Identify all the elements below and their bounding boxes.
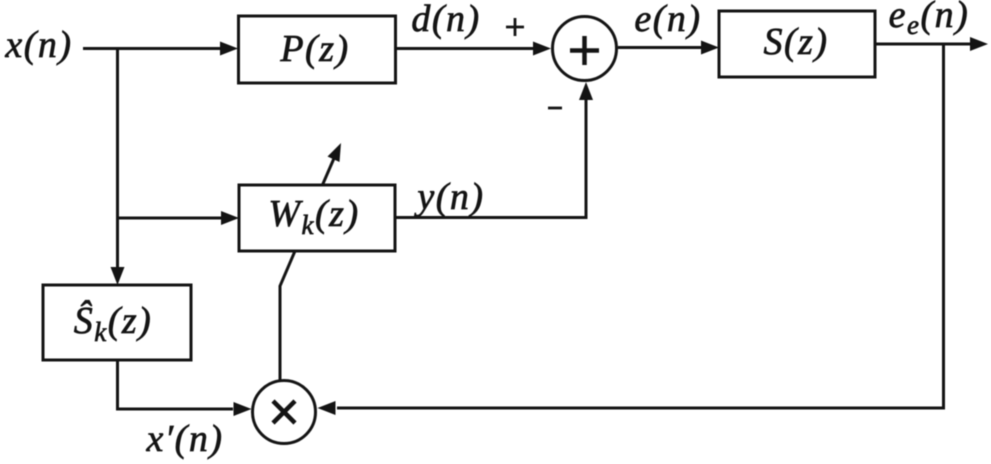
svg-text:S(z): S(z) [763,21,828,63]
svg-text:e(n): e(n) [634,0,701,40]
svg-text:Ŝk(z): Ŝk(z) [74,300,153,347]
svg-text:d(n): d(n) [411,0,480,40]
svg-text:y(n): y(n) [413,176,484,218]
svg-text:ee(n): ee(n) [889,0,970,40]
svg-text:x′(n): x′(n) [146,418,224,460]
svg-text:P(z): P(z) [279,28,349,70]
svg-text:x(n): x(n) [4,24,72,66]
